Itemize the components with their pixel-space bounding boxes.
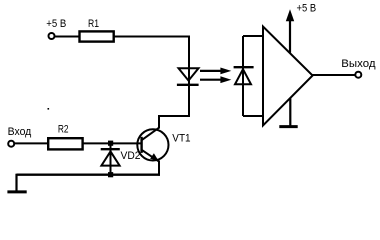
wire: vertical down to LED anode: [188, 37, 190, 87]
svg-text:+5 В: +5 В: [46, 18, 66, 30]
terminal +5V supply (left): [49, 33, 55, 39]
wire: horizontal to collector: [158, 115, 190, 117]
+5V arrow (right supply): [286, 9, 294, 52]
photodiode (optocoupler receiver): [234, 36, 254, 116]
resistor R2: [48, 138, 82, 149]
stray dot: [48, 108, 50, 110]
junction node: base wire / VD2 cathode: [108, 141, 113, 146]
wire: R1 to LED branch (top horizontal): [114, 36, 190, 38]
wire: op-amp output to terminal: [313, 74, 356, 76]
output terminal: [355, 72, 361, 78]
op-amp U1 (amplifier triangle): [263, 27, 313, 126]
wire: R2 to VT1 base: [83, 142, 142, 144]
wire: photodiode bottom rail: [243, 115, 263, 117]
ground (bottom left): [7, 174, 26, 192]
junction node: VD2 anode / bottom rail: [108, 172, 113, 177]
LED D1 (optocoupler emitting diode): [177, 68, 199, 85]
wire: photodiode top rail: [243, 35, 263, 37]
input terminal: [8, 141, 14, 147]
svg-text:Вход: Вход: [8, 126, 32, 138]
svg-text:R2: R2: [58, 123, 69, 135]
wire: input terminal to R2: [14, 142, 48, 144]
light arrow (lower): [200, 76, 231, 83]
svg-text:R1: R1: [88, 18, 99, 30]
svg-text:VT1: VT1: [172, 133, 190, 145]
transistor VT1: [137, 128, 168, 162]
light arrow (upper): [200, 68, 231, 75]
svg-text:Выход: Выход: [341, 58, 376, 70]
wire: LED cathode down to collector bend: [188, 86, 190, 117]
wire: bottom rail: [17, 173, 161, 175]
wire: +5V terminal to R1: [55, 36, 80, 38]
resistor R1: [80, 31, 114, 41]
svg-text:+5 В: +5 В: [297, 2, 317, 14]
svg-text:VD2: VD2: [121, 150, 141, 162]
ground (under op-amp): [279, 99, 297, 127]
wire: vertical into VT1 collector: [158, 116, 160, 129]
diode VD2: [101, 143, 120, 175]
wire: VT1 emitter down to bottom rail: [158, 161, 160, 176]
